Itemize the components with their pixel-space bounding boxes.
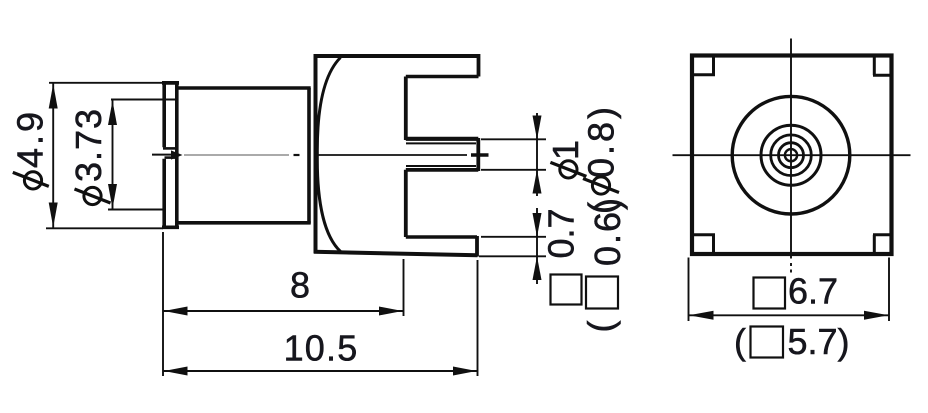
dimension phi1 / phi0.8 (pin) — [481, 113, 546, 196]
corner notch top-left — [693, 56, 715, 75]
corner notch bottom-left — [693, 235, 715, 254]
label square0.7 — [541, 208, 582, 304]
svg-text:5.7): 5.7) — [788, 321, 850, 362]
label (phi0.8) — [581, 104, 622, 214]
dimension 10.5 — [163, 260, 478, 376]
dimension 8 — [163, 232, 404, 376]
square body E-shape outline (side view) — [314, 54, 479, 257]
dimension phi3.73 — [108, 100, 177, 210]
svg-text:0.6): 0.6) — [587, 196, 628, 266]
svg-text:10.5: 10.5 — [284, 328, 359, 369]
svg-text:0.7: 0.7 — [541, 208, 582, 258]
label square6.7 — [754, 271, 839, 312]
corner notch top-right — [873, 56, 891, 75]
bell curve inside body — [317, 58, 340, 252]
svg-text:6.7: 6.7 — [788, 271, 838, 312]
front view vertical centerline — [790, 39, 792, 273]
dimension 0.7 / 0.6 (leg) — [479, 208, 546, 284]
center contact pin (side view) — [406, 138, 479, 171]
label phi1 — [545, 140, 586, 178]
cylinder body (side view) — [175, 88, 311, 224]
shell front band (left flange outline) — [162, 82, 179, 228]
dimension phi4.9 — [46, 83, 163, 229]
centerline (axis) of side view — [184, 154, 489, 156]
concentric circles (front view) — [732, 96, 850, 214]
svg-text:(: ( — [580, 321, 621, 333]
front view square flange — [692, 56, 892, 255]
label (square5.7) — [734, 321, 850, 362]
front view horizontal centerline — [673, 154, 911, 156]
svg-text:0.8): 0.8) — [581, 104, 622, 178]
label phi4.9 — [10, 109, 51, 189]
svg-text:3.73: 3.73 — [68, 108, 109, 182]
svg-text:4.9: 4.9 — [10, 109, 51, 168]
svg-text:(: ( — [734, 321, 746, 362]
label (square0.6) — [580, 196, 628, 333]
label phi3.73 — [68, 108, 111, 205]
corner notch bottom-right — [873, 235, 891, 254]
dimension square6.7 — [689, 258, 890, 322]
centerline leader arrow at shell slot — [152, 150, 183, 159]
svg-text:8: 8 — [290, 265, 310, 306]
